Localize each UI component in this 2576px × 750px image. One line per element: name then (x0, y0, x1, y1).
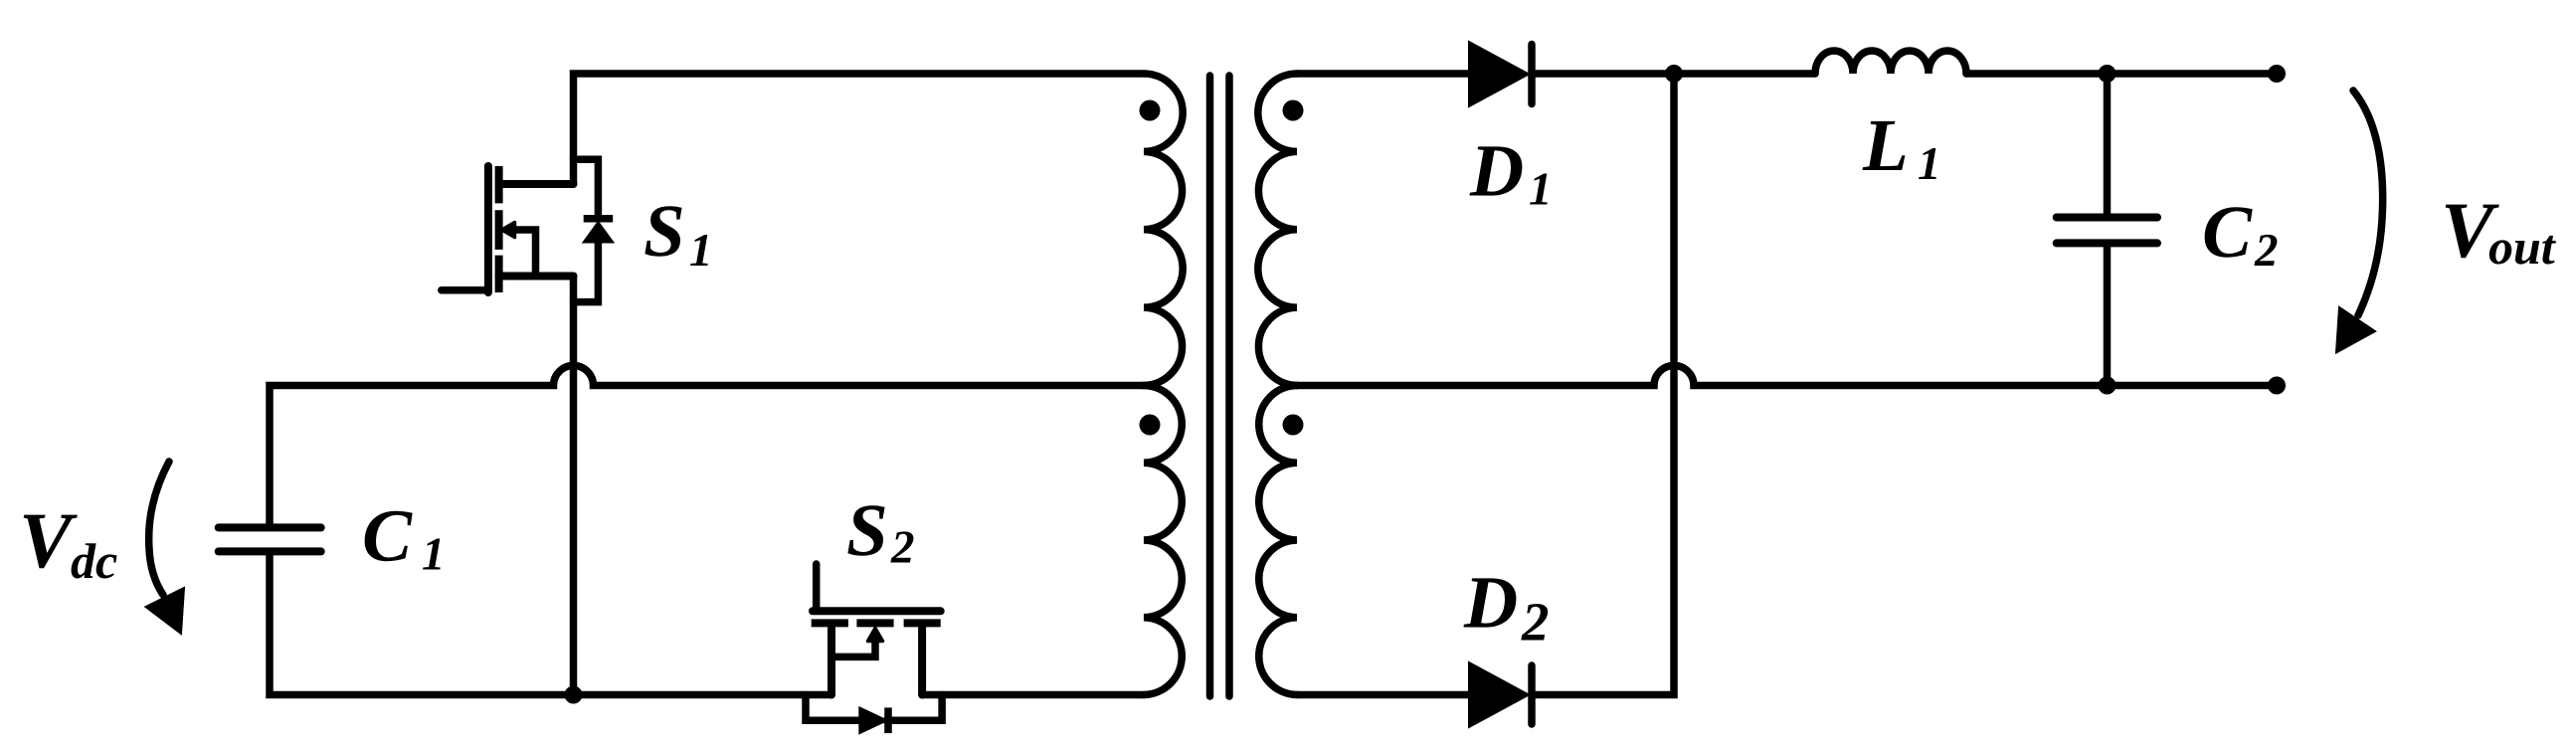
wire D1 to L1 (1532, 70, 1815, 78)
label C2-C (2205, 207, 2253, 257)
label S1-1 (690, 235, 708, 266)
S1 gate bar (484, 166, 492, 292)
transformer T1 primary upper winding (1144, 74, 1183, 386)
label L1-L (1863, 121, 1906, 170)
S2 channel segment 2 (856, 619, 893, 627)
transformer T1 secondary upper winding (1258, 74, 1297, 386)
S1 drain branch (499, 180, 574, 188)
wire bottom rail secondary to D2 (1297, 691, 1469, 699)
S2 body diode cathode bar (884, 707, 892, 733)
S1 body diode cathode bar (584, 215, 614, 223)
Vdc arrow arc (149, 462, 169, 595)
label C1-1 (423, 539, 441, 570)
diode D1 triangle (1469, 42, 1529, 106)
inductor L1 (1815, 51, 1966, 74)
capacitor C1 plates (219, 523, 321, 531)
junction dot D1 output node (1665, 65, 1683, 83)
S2 body diode left branch (806, 695, 859, 721)
S2 body tap wire (831, 637, 875, 656)
S2 source vertical (828, 627, 835, 695)
label Vdc-V (24, 515, 78, 569)
label S2-S (847, 505, 884, 555)
transistor Q S1 (MOSFET) (442, 159, 613, 301)
label S1-S (644, 206, 681, 256)
S1 channel segment 1 (495, 166, 503, 203)
S2 gate bar (813, 607, 941, 615)
S1 source branch (499, 273, 574, 281)
S2 channel segment 1 (812, 619, 848, 627)
wire D2 to D1 junction vertical (1532, 74, 1674, 695)
capacitor C2 top lead (2104, 74, 2112, 214)
wire bottom rail from S2 drain to transformer (922, 691, 1144, 699)
junction dot C2 top (2099, 65, 2116, 83)
diode D1 cathode bar (1528, 45, 1536, 104)
label Vdc-dc (72, 543, 117, 578)
S1 gate lead (442, 286, 488, 294)
S2 drain vertical (918, 627, 926, 695)
transformer dot secondary lower (1283, 415, 1304, 436)
transistor Q S2 (MOSFET, rotated) (806, 564, 942, 733)
diode D2 cathode bar (1528, 665, 1536, 724)
transformer dot secondary upper (1283, 100, 1304, 121)
label L1-1 (1919, 148, 1936, 179)
wire top-left rail from S1 drain to transformer primary top (574, 74, 1145, 184)
Vout arrowhead (2336, 307, 2375, 353)
transformer T1 secondary lower winding (1259, 386, 1297, 695)
Vdc arrowhead (146, 588, 185, 634)
label D2-2 (1521, 604, 1548, 640)
label S2-2 (890, 531, 913, 562)
S1 body diode top branch (574, 159, 599, 216)
wire top rail secondary to D1 (1297, 70, 1469, 78)
label Vout-V (2446, 205, 2499, 259)
wire C1 bottom lead and bottom rail left (270, 555, 831, 695)
transformer dot primary lower (1140, 415, 1161, 436)
label Vout-out (2489, 236, 2556, 265)
junction dot C2 bottom (2099, 377, 2116, 395)
S2 body diode triangle (859, 707, 886, 733)
Vout arrow arc (2353, 91, 2383, 315)
transformer T1 primary lower winding (1144, 386, 1182, 695)
diode D2 triangle (1469, 662, 1529, 727)
transformer dot primary upper (1140, 100, 1161, 121)
label D2-D (1464, 578, 1517, 627)
S1 body tap arrow (502, 223, 515, 238)
terminal dot output - (2268, 377, 2286, 395)
S2 channel segment 3 (904, 619, 941, 627)
wire C1 top lead and mid rail left with hop over S1 source (270, 366, 1144, 525)
S2 body diode right branch (886, 695, 942, 721)
S2 body tap arrow (868, 629, 883, 642)
S1 channel segment 2 (495, 210, 503, 250)
S2 gate lead (813, 564, 821, 611)
label C1-C (365, 511, 413, 561)
label C2-2 (2254, 235, 2277, 266)
transformer T1 core (1206, 76, 1214, 696)
S1 channel segment 3 (495, 256, 503, 292)
capacitor C2 bottom lead (2104, 247, 2112, 386)
wire L1 to output + terminal (1966, 70, 2277, 78)
wire mid rail right with hop over D1/D2 vertical (1297, 366, 2277, 386)
S1 body diode bottom branch (574, 241, 599, 302)
capacitor C2 plates (2057, 214, 2157, 222)
label D1-D (1470, 146, 1523, 195)
junction dot S1 source / bottom rail (565, 686, 583, 704)
label D1-1 (1530, 174, 1548, 205)
terminal dot output + (2268, 65, 2286, 83)
S1 body diode triangle (584, 222, 614, 242)
S1 body tap wire (509, 230, 536, 277)
wire S1 source down to bottom rail (570, 277, 578, 695)
